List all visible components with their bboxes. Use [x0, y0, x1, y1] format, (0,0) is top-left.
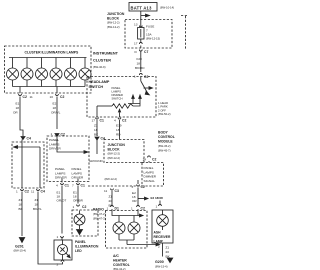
connector C4 triangle	[21, 137, 25, 140]
svg-text:1: 1	[134, 75, 136, 79]
svg-text:C2: C2	[61, 133, 65, 137]
svg-text:1: 1	[57, 235, 59, 239]
svg-text:(8W-12-2): (8W-12-2)	[108, 156, 121, 160]
svg-text:14: 14	[143, 158, 147, 162]
radio lamp	[79, 211, 81, 215]
dashed segment	[88, 185, 142, 187]
svg-text:(8W-40-9): (8W-40-9)	[93, 65, 106, 69]
svg-text:HEADLAMP: HEADLAMP	[89, 80, 110, 84]
connector C2 headlamp switch entry	[139, 73, 142, 75]
svg-text:OR/OT: OR/OT	[57, 199, 67, 203]
svg-text:F20: F20	[137, 57, 143, 61]
svg-text:OR/BR: OR/BR	[73, 199, 84, 203]
LED symbol	[58, 245, 68, 255]
driver output wires	[62, 179, 78, 183]
page-edge dashed fragment	[181, 16, 187, 50]
svg-text:C2: C2	[23, 95, 27, 99]
svg-text:C1: C1	[100, 119, 104, 123]
svg-text:SWITCH: SWITCH	[89, 85, 104, 89]
svg-text:(8W-12-2): (8W-12-2)	[107, 25, 120, 29]
ground wire Z1	[21, 192, 23, 237]
wire to radio lamp	[77, 186, 79, 204]
ac lamp 2	[128, 216, 140, 241]
svg-text:C4: C4	[27, 137, 31, 141]
svg-text:C1: C1	[65, 184, 69, 188]
svg-text:DRIVER: DRIVER	[49, 147, 61, 151]
svg-text:2: 2	[158, 245, 160, 249]
wire drop to pin 11	[19, 87, 21, 94]
svg-text:GROUND: GROUND	[89, 159, 104, 163]
wire E2 from cluster	[56, 97, 58, 130]
svg-text:DRIVER: DRIVER	[72, 176, 84, 180]
svg-text:11: 11	[104, 189, 107, 193]
pin 13 connector	[139, 26, 142, 28]
rheostat wiper	[118, 109, 120, 112]
cluster bottom bus wire	[13, 86, 86, 88]
svg-text:C2: C2	[144, 75, 148, 79]
svg-text:18: 18	[16, 106, 20, 110]
svg-text:LAMP: LAMP	[154, 240, 164, 244]
svg-text:(8W-12-2): (8W-12-2)	[105, 177, 118, 181]
internal wire with left arrow	[17, 140, 40, 189]
lamp L1	[7, 58, 19, 87]
switch lever	[141, 77, 148, 94]
svg-text:C4: C4	[101, 137, 105, 141]
junction block box 2	[104, 140, 144, 163]
svg-text:C2: C2	[82, 205, 86, 209]
wire drop to pin 10	[56, 87, 58, 94]
svg-text:Z1: Z1	[19, 198, 23, 202]
wire E1 from cluster	[20, 97, 23, 137]
lamp L4	[50, 58, 62, 87]
svg-text:(8W-12-15): (8W-12-15)	[146, 37, 160, 41]
svg-text:ILLUMINATION: ILLUMINATION	[75, 245, 99, 249]
svg-text:OR: OR	[132, 199, 137, 203]
svg-text:CONTROL: CONTROL	[158, 135, 175, 139]
BCM dimmer signal box	[142, 163, 164, 187]
panel illumination LED box	[54, 240, 72, 260]
svg-text:20: 20	[166, 250, 170, 254]
radio box	[72, 210, 98, 236]
lamp L6	[79, 58, 91, 87]
ash receiver lamp box	[152, 210, 173, 243]
junction block (fuse) box	[125, 20, 172, 49]
wire to panel illumination LED	[61, 186, 63, 234]
wire from BATT	[140, 11, 142, 20]
connector C4 triangle	[95, 137, 99, 140]
BCM entry connector C2	[148, 156, 151, 158]
connector C2 entry	[137, 205, 140, 207]
ground G201	[19, 238, 24, 243]
svg-text:INSTRUMENT: INSTRUMENT	[93, 52, 119, 56]
svg-text:OR: OR	[13, 111, 18, 115]
svg-text:A/C: A/C	[113, 254, 119, 258]
lower-left dashed box	[12, 142, 44, 188]
svg-text:C2: C2	[141, 185, 145, 189]
ground wire from switch	[96, 120, 98, 136]
svg-text:C2: C2	[141, 207, 145, 211]
svg-text:(8W-47-3): (8W-47-3)	[93, 216, 106, 220]
svg-text:11: 11	[31, 190, 34, 194]
dimmer signal wire	[119, 120, 121, 140]
connector C2 pin 10 (right)	[56, 94, 59, 96]
svg-text:CLUSTER: CLUSTER	[93, 59, 111, 63]
svg-text:13: 13	[134, 23, 138, 27]
branch arrow to other circuits	[141, 15, 146, 17]
wire to C1 ground exit	[96, 106, 98, 117]
lamp L5	[65, 58, 77, 87]
svg-text:18: 18	[116, 128, 120, 132]
ground G200	[167, 258, 172, 263]
svg-text:18: 18	[35, 203, 39, 207]
fixed contact b	[139, 98, 141, 104]
ac lamp 1	[113, 216, 125, 241]
connector C4 exit	[37, 189, 40, 191]
svg-text:18: 18	[137, 62, 141, 66]
A/C heater control box	[106, 211, 148, 249]
internal driver wire with right arrow	[57, 137, 84, 153]
svg-text:CLUSTER ILLUMINATION LAMPS: CLUSTER ILLUMINATION LAMPS	[25, 51, 80, 55]
svg-text:BODY: BODY	[158, 131, 169, 135]
svg-text:RADIO: RADIO	[93, 208, 104, 212]
svg-text:20: 20	[109, 199, 113, 203]
svg-text:MODULE: MODULE	[158, 140, 173, 144]
internal feed bus with arrow	[112, 209, 140, 216]
svg-text:7: 7	[72, 184, 74, 188]
svg-text:1: 1	[51, 132, 53, 136]
dimmer wire E2	[137, 188, 139, 207]
svg-text:1: 1	[156, 205, 158, 209]
svg-text:HEATER: HEATER	[113, 259, 127, 263]
svg-text:Z1: Z1	[109, 195, 113, 199]
connector C1 exit left	[61, 183, 64, 185]
instrument cluster box	[5, 46, 92, 93]
svg-text:(8W-45-7): (8W-45-7)	[158, 148, 171, 152]
connector C3 exit	[111, 189, 114, 191]
svg-text:LED: LED	[75, 249, 82, 253]
svg-text:RD: RD	[116, 133, 121, 137]
svg-text:C3: C3	[115, 189, 119, 193]
svg-text:OR/VL: OR/VL	[51, 111, 61, 115]
svg-text:11: 11	[30, 95, 33, 99]
splice arrow to E2	[138, 198, 145, 200]
svg-text:1: 1	[107, 207, 109, 211]
connector C2 pin 11 (left)	[19, 94, 22, 96]
BCM internal wire	[138, 161, 149, 184]
fixed contact a	[132, 98, 134, 104]
svg-text:E1: E1	[16, 102, 20, 106]
connector ash entry	[159, 204, 162, 206]
svg-text:D1: D1	[115, 207, 119, 211]
svg-text:1: 1	[73, 205, 75, 209]
svg-text:17: 17	[134, 42, 138, 46]
svg-text:SWITCH: SWITCH	[112, 97, 123, 101]
rheostat (panel lamps dimmer)	[97, 105, 112, 107]
svg-text:G200: G200	[155, 260, 164, 264]
svg-text:(8W-15-4): (8W-15-4)	[14, 249, 27, 253]
switch motion arrow	[144, 87, 150, 89]
connector D1 entry	[111, 205, 114, 207]
connector C1 exit	[96, 118, 99, 120]
svg-text:4: 4	[56, 184, 58, 188]
connector C2 exit	[118, 118, 121, 120]
svg-text:C2: C2	[122, 119, 126, 123]
cluster top bus wire	[9, 57, 87, 59]
fuse F7	[140, 20, 142, 28]
svg-text:Z1: Z1	[35, 198, 39, 202]
ash lamp	[162, 210, 164, 215]
svg-text:(8W-10-14): (8W-10-14)	[160, 6, 174, 10]
wire F20	[140, 52, 142, 73]
svg-text:ASH: ASH	[154, 231, 162, 235]
svg-text:18: 18	[94, 128, 98, 132]
connector C7	[139, 50, 142, 52]
svg-text:BATT A13: BATT A13	[131, 5, 153, 10]
svg-text:E2: E2	[53, 102, 57, 106]
svg-text:C2: C2	[25, 190, 29, 194]
svg-text:BK/YL: BK/YL	[33, 207, 42, 211]
svg-text:18: 18	[19, 203, 23, 207]
wire drop to ash lamp	[159, 201, 161, 206]
svg-text:BK/RD: BK/RD	[135, 66, 145, 70]
radio lamp pin1 connector	[77, 205, 80, 207]
svg-text:Z1: Z1	[166, 246, 170, 250]
BATT A13 feed box	[129, 3, 157, 12]
radio case ground	[79, 225, 81, 229]
ground bus and arrow to right	[119, 240, 156, 245]
svg-text:C2: C2	[152, 158, 156, 162]
lamp L2	[21, 58, 33, 87]
svg-text:(8W-50-2): (8W-50-2)	[158, 112, 171, 116]
svg-text:C1: C1	[81, 184, 85, 188]
svg-text:1: 1	[131, 207, 133, 211]
ground wire to A/C	[111, 191, 113, 206]
LED pin 1 connector	[61, 236, 64, 238]
pin 17 connector	[139, 42, 142, 44]
svg-text:17: 17	[92, 119, 96, 123]
svg-text:C4: C4	[41, 190, 45, 194]
connector C2 exit	[137, 185, 140, 187]
connector C1 exit right	[77, 183, 80, 185]
svg-text:PANEL: PANEL	[75, 240, 86, 244]
contact base wire	[128, 104, 140, 107]
svg-text:E19: E19	[116, 124, 122, 128]
svg-text:E2 18OR: E2 18OR	[151, 196, 164, 200]
svg-text:(8W-15-4): (8W-15-4)	[155, 265, 168, 269]
svg-text:RECEIVER: RECEIVER	[154, 235, 171, 239]
wire to LED return	[38, 192, 63, 265]
svg-text:4: 4	[114, 119, 116, 123]
LED pin 2 connector	[61, 260, 64, 262]
svg-text:C7: C7	[144, 50, 148, 54]
panel lamps driver box (BCM left)	[47, 136, 89, 182]
connector C2 triangle (driver box entry)	[55, 134, 59, 137]
svg-text:1: 1	[16, 190, 18, 194]
headlamp switch box	[87, 77, 156, 118]
svg-text:18: 18	[53, 106, 57, 110]
svg-text:DRIVER: DRIVER	[55, 176, 67, 180]
svg-text:10: 10	[50, 95, 54, 99]
svg-text:C2: C2	[60, 95, 64, 99]
connector C2 exit	[21, 189, 24, 191]
svg-text:2: 2	[57, 263, 59, 267]
ash ground wire	[162, 243, 164, 257]
svg-text:Z1: Z1	[94, 124, 98, 128]
svg-text:3: 3	[132, 185, 134, 189]
lamp L3	[36, 58, 48, 87]
svg-text:SIGNAL: SIGNAL	[144, 179, 156, 183]
